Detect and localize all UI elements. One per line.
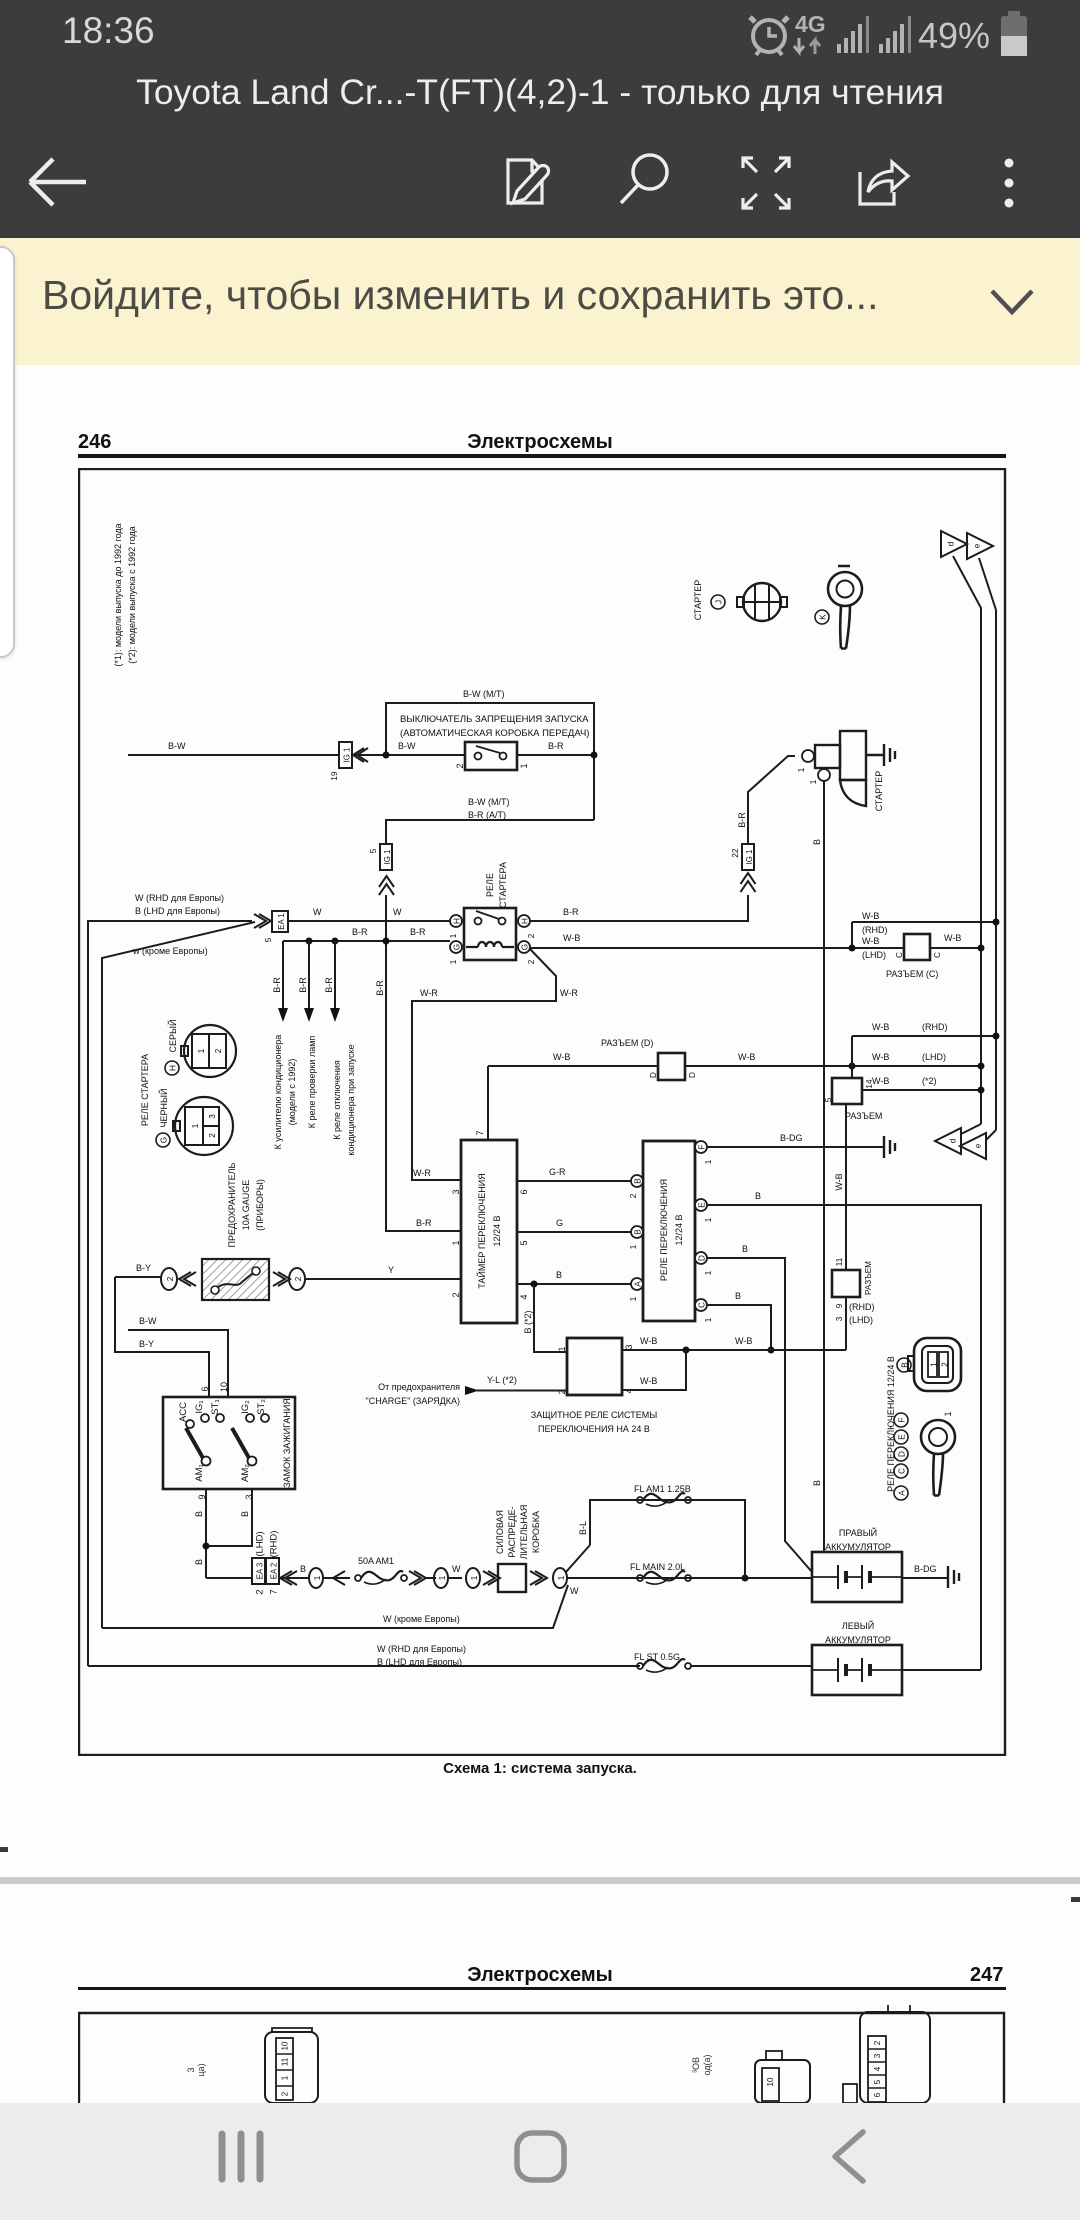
power distribution box <box>498 1564 526 1592</box>
ring terminal right view <box>921 1420 955 1496</box>
svg-text:D: D <box>688 1072 697 1078</box>
svg-text:B-R: B-R <box>563 907 579 917</box>
svg-text:7: 7 <box>269 1589 280 1594</box>
label К усилителю кондиционера <box>273 1035 297 1150</box>
svg-text:Y: Y <box>388 1265 394 1275</box>
svg-text:W-B: W-B <box>640 1336 657 1346</box>
ground symbol mid <box>884 1136 895 1158</box>
connector IG1 pin 5 <box>369 844 392 870</box>
connector EA2 RHD <box>266 1531 280 1595</box>
connector РАЗЪЕМ 11 / 3 9 <box>832 1257 873 1321</box>
svg-text:G: G <box>453 944 462 950</box>
svg-text:РАЗЪЕМ (С): РАЗЪЕМ (С) <box>886 969 938 979</box>
svg-text:A: A <box>634 1281 643 1287</box>
svg-text:2: 2 <box>208 1133 217 1138</box>
wire W-B from relay G to connector C <box>530 947 904 949</box>
svg-text:W (RHD для Европы): W (RHD для Европы) <box>135 893 224 903</box>
svg-text:кондиционера при запуске: кондиционера при запуске <box>346 1044 356 1155</box>
oval terminal 1a <box>309 1568 323 1588</box>
svg-text:АККУМУЛЯТОР: АККУМУЛЯТОР <box>825 1635 891 1645</box>
svg-text:W-B: W-B <box>872 1052 889 1062</box>
triangle e top <box>967 533 993 559</box>
svg-text:B-DG: B-DG <box>780 1133 803 1143</box>
svg-text:КОРОБКА: КОРОБКА <box>531 1511 541 1553</box>
svg-text:B-R: B-R <box>324 977 334 993</box>
svg-text:(RHD): (RHD) <box>849 1302 875 1312</box>
wire W-B star2 row <box>862 1089 981 1091</box>
svg-text:ЛЕВЫЙ: ЛЕВЫЙ <box>842 1620 874 1631</box>
page 247 diagram frame <box>79 2013 1004 2220</box>
mid rotated note text p247 <box>691 2054 712 2075</box>
ignition right labels <box>240 1399 267 1482</box>
neutral start switch box <box>465 742 517 770</box>
svg-text:6: 6 <box>873 2092 882 2097</box>
wire to oval 1b <box>424 1577 462 1579</box>
svg-text:IG₁: IG₁ <box>194 1400 205 1413</box>
svg-text:W-B: W-B <box>738 1052 755 1062</box>
overflow menu icon <box>1005 159 1014 208</box>
wire B from starter K down to right battery <box>823 781 825 1552</box>
junction dot D wire at 852 <box>849 1063 856 1070</box>
svg-text:e: e <box>974 1143 983 1148</box>
svg-text:1: 1 <box>313 1575 322 1580</box>
wire B-W top left <box>128 754 594 756</box>
app title <box>0 72 1080 113</box>
label W RHD / B LHD top <box>135 893 224 916</box>
svg-text:2: 2 <box>294 1276 303 1281</box>
wire drop to lamp check relay <box>304 941 314 1022</box>
terminal H right <box>518 915 536 938</box>
svg-text:(LHD): (LHD) <box>862 950 886 960</box>
wire B-DG to ground <box>707 1146 884 1148</box>
svg-text:B: B <box>755 1191 761 1201</box>
terminal A relay <box>629 1278 643 1301</box>
arrow chevrons after power box <box>530 1571 547 1585</box>
svg-text:W-R: W-R <box>413 1168 431 1178</box>
wire to oval 1 <box>279 1577 350 1579</box>
svg-text:"CHARGE" (ЗАРЯДКА): "CHARGE" (ЗАРЯДКА) <box>366 1396 460 1406</box>
wire w кроме Европы diagonal and vertical <box>102 922 255 1628</box>
svg-text:5: 5 <box>264 937 273 942</box>
wire drop to AC cutoff relay <box>330 941 340 1022</box>
svg-text:G-R: G-R <box>549 1167 566 1177</box>
svg-text:50A AM1: 50A AM1 <box>358 1556 394 1566</box>
starter relay box <box>464 908 516 960</box>
svg-text:(RHD): (RHD) <box>922 1022 948 1032</box>
svg-text:1: 1 <box>943 1411 953 1416</box>
svg-text:10: 10 <box>281 2041 290 2050</box>
banner chevron <box>985 285 1040 325</box>
wire G timer to relay <box>517 1231 631 1233</box>
terminal C relay <box>695 1299 713 1322</box>
connector EA1 <box>264 911 288 942</box>
wire W to FL MAIN <box>567 1577 812 1579</box>
svg-text:C: C <box>895 952 904 958</box>
svg-text:1: 1 <box>438 1575 447 1580</box>
wire W-B pin 4 loop <box>622 1350 686 1390</box>
wire from triangle e to far right vertical <box>979 558 996 1130</box>
svg-text:(RHD): (RHD) <box>862 925 888 935</box>
svg-text:4: 4 <box>873 2066 882 2071</box>
svg-text:B-W: B-W <box>139 1316 157 1326</box>
svg-text:од(а): од(а) <box>702 2054 712 2075</box>
svg-text:АККУМУЛЯТОР: АККУМУЛЯТОР <box>825 1542 891 1552</box>
svg-text:СИЛОВАЯ: СИЛОВАЯ <box>495 1510 505 1554</box>
svg-text:G: G <box>521 944 530 950</box>
tiny rotated note text p247 <box>186 2063 206 2076</box>
svg-text:B: B <box>742 1244 748 1254</box>
triangle d top <box>941 531 967 557</box>
svg-text:3: 3 <box>624 1344 634 1349</box>
timer box ТАЙМЕР ПЕРЕКЛЮЧЕНИЯ <box>461 1140 517 1323</box>
connector IG1 pin 19 <box>330 742 352 781</box>
alarm clock icon <box>750 17 788 55</box>
search icon <box>621 155 667 203</box>
junction dot pin4 riser <box>683 1347 690 1354</box>
svg-text:W: W <box>452 1564 461 1574</box>
ignition left bank contacts <box>186 1414 224 1466</box>
svg-text:1: 1 <box>451 1240 461 1245</box>
junction dot branch to protection relay <box>531 1281 538 1288</box>
svg-text:19: 19 <box>330 771 339 781</box>
terminal D relay <box>695 1252 713 1275</box>
svg-text:1: 1 <box>281 2075 290 2080</box>
svg-text:2: 2 <box>455 763 465 768</box>
terminal J circle <box>711 595 725 609</box>
labels W RHD B LHD bottom <box>377 1644 466 1667</box>
junction dot on far vertical <box>993 919 1000 926</box>
svg-text:3: 3 <box>873 2053 882 2058</box>
terminal G left <box>449 941 462 964</box>
protection relay pin labels <box>557 1344 634 1394</box>
svg-text:ACC: ACC <box>178 1402 189 1422</box>
svg-text:1: 1 <box>191 1123 200 1128</box>
svg-text:D: D <box>698 1255 707 1261</box>
svg-text:B-R: B-R <box>298 977 308 993</box>
svg-text:W-B: W-B <box>862 936 879 946</box>
right connector p247 <box>860 2003 930 2103</box>
wire B to EA connector <box>206 1577 252 1579</box>
svg-text:10A GAUGE: 10A GAUGE <box>241 1180 251 1231</box>
arrow chevrons fuse right <box>273 1272 290 1286</box>
arrow chevrons up into IG1 22 <box>741 873 756 892</box>
small box left of right connector <box>843 2084 857 2103</box>
wire B-R vertical from IG1 5 down to timer pin1 <box>386 895 461 1231</box>
svg-text:В (LHD для Европы): В (LHD для Европы) <box>135 906 220 916</box>
svg-text:2: 2 <box>166 1276 175 1281</box>
svg-text:РАЗЪЕМ (D): РАЗЪЕМ (D) <box>601 1038 653 1048</box>
svg-text:2: 2 <box>527 959 536 964</box>
protection relay box ЗАЩИТНОЕ РЕЛЕ <box>567 1338 622 1395</box>
fusible link FL ST <box>637 1659 691 1672</box>
svg-text:1: 1 <box>704 1217 713 1222</box>
svg-text:ST₂: ST₂ <box>256 1399 267 1415</box>
svg-text:РЕЛЕ ПЕРЕКЛЮЧЕНИЯ: РЕЛЕ ПЕРЕКЛЮЧЕНИЯ <box>659 1179 669 1281</box>
share icon <box>860 162 908 204</box>
svg-text:B-R: B-R <box>416 1218 432 1228</box>
svg-text:G: G <box>556 1218 563 1228</box>
svg-text:2: 2 <box>527 933 536 938</box>
svg-text:ТАЙМЕР ПЕРЕКЛЮЧЕНИЯ: ТАЙМЕР ПЕРЕКЛЮЧЕНИЯ <box>476 1173 487 1289</box>
svg-text:10: 10 <box>766 2077 775 2086</box>
wire B-W MT bypass top <box>386 703 594 820</box>
wire triangle d bottom link <box>961 1124 981 1134</box>
battery icon <box>1001 11 1027 56</box>
clock text <box>62 10 155 52</box>
svg-text:5: 5 <box>873 2079 882 2084</box>
svg-text:РЕЛЕ: РЕЛЕ <box>485 873 495 897</box>
left connector p247 <box>265 2028 318 2103</box>
arrow into protection relay pin 2 <box>465 1386 479 1395</box>
arrow chevrons after EA <box>280 1571 297 1585</box>
terminal G right <box>518 941 536 964</box>
wire B-DG battery to ground <box>902 1577 948 1579</box>
svg-text:1: 1 <box>470 1575 479 1580</box>
svg-text:(LHD): (LHD) <box>255 1531 266 1556</box>
mid connector p247 <box>755 2051 810 2103</box>
label B-W (M/T) / B-R (A/T) <box>468 797 509 820</box>
triangle e bottom <box>960 1133 986 1159</box>
svg-text:FL MAIN 2.0L: FL MAIN 2.0L <box>630 1562 685 1572</box>
svg-text:B-Y: B-Y <box>136 1263 151 1273</box>
svg-text:6: 6 <box>200 1386 210 1391</box>
wire B-R from relay to IG1 22 <box>530 895 748 921</box>
left battery cells <box>812 1658 902 1682</box>
svg-text:1: 1 <box>704 1317 713 1322</box>
svg-text:(LHD): (LHD) <box>849 1315 873 1325</box>
svg-text:ПРАВЫЙ: ПРАВЫЙ <box>839 1527 877 1538</box>
terminal G circle label <box>156 1133 170 1147</box>
fusible link FL MAIN <box>637 1571 691 1584</box>
arrow chevrons into power box <box>483 1571 500 1585</box>
svg-text:W-B: W-B <box>640 1376 657 1386</box>
svg-text:К усилителю кондиционера: К усилителю кондиционера <box>273 1035 283 1150</box>
triangle d bottom <box>935 1128 961 1154</box>
junction dot drop3 <box>332 938 339 945</box>
svg-text:2: 2 <box>873 2040 882 2045</box>
power distribution box label <box>495 1505 541 1560</box>
svg-text:1: 1 <box>809 779 818 784</box>
wire left battery to right vertical <box>902 1669 981 1671</box>
svg-text:W-B: W-B <box>872 1022 889 1032</box>
svg-text:1: 1 <box>519 763 529 768</box>
connector G black round view <box>173 1097 233 1155</box>
labels W-B RHD rows <box>862 911 888 960</box>
diagram frame <box>79 469 1005 1755</box>
svg-text:1: 1 <box>557 1346 567 1351</box>
android status + app header bar <box>0 0 1080 238</box>
wire Y fuse to timer pin 2 <box>305 1278 461 1280</box>
svg-text:ЗАЩИТНОЕ РЕЛЕ СИСТЕМЫ: ЗАЩИТНОЕ РЕЛЕ СИСТЕМЫ <box>531 1410 657 1420</box>
svg-text:B-R: B-R <box>375 980 385 996</box>
fuse box hatched <box>202 1259 269 1300</box>
wire B-R branch line <box>283 940 450 942</box>
page break artifacts <box>0 1847 8 1852</box>
svg-text:AM₂: AM₂ <box>240 1464 251 1482</box>
wire W-B RHD mid row <box>852 1035 996 1037</box>
terminal letters column F E D C A <box>894 1413 908 1500</box>
arrow chevron before link <box>333 1571 345 1585</box>
wire W-B from razem down <box>845 1297 847 1350</box>
svg-text:СЕРЫЙ: СЕРЫЙ <box>167 1020 178 1053</box>
svg-text:W: W <box>570 1586 579 1596</box>
arrow chevrons up into IG1 5 <box>379 876 394 895</box>
svg-text:К реле проверки ламп: К реле проверки ламп <box>307 1036 317 1129</box>
connector H grey round view <box>181 1025 236 1077</box>
wire B star2 branch down <box>534 1284 567 1352</box>
ignition lock box ЗАМОК ЗАЖИГАНИЯ <box>163 1397 295 1489</box>
connector EA3 LHD <box>252 1531 266 1594</box>
wire B timer pin4 to relay A <box>517 1283 631 1285</box>
terminal circle K at starter <box>809 769 830 784</box>
svg-text:F: F <box>698 1144 707 1149</box>
relay box РЕЛЕ ПЕРЕКЛЮЧЕНИЯ <box>643 1141 695 1321</box>
svg-text:B: B <box>300 1564 306 1574</box>
svg-text:1: 1 <box>930 1362 939 1367</box>
svg-text:C: C <box>698 1302 707 1308</box>
svg-text:ца): ца) <box>196 2063 206 2076</box>
svg-text:B: B <box>634 1178 643 1184</box>
svg-text:EA 2: EA 2 <box>270 1563 279 1579</box>
svg-text:1: 1 <box>704 1159 713 1164</box>
ignition left labels <box>178 1399 221 1481</box>
svg-text:ПЕРЕКЛЮЧЕНИЯ НА 24 В: ПЕРЕКЛЮЧЕНИЯ НА 24 В <box>538 1424 650 1434</box>
terminal F relay <box>695 1141 713 1164</box>
svg-text:12/24 В: 12/24 В <box>492 1215 502 1246</box>
svg-text:EA 3: EA 3 <box>256 1563 265 1579</box>
wire B from AM2 down <box>206 1489 252 1546</box>
starter motor right assembly <box>815 731 866 806</box>
svg-text:W-B: W-B <box>735 1336 752 1346</box>
junction dot FL MAIN right <box>742 1575 749 1582</box>
svg-text:B-W: B-W <box>168 741 186 751</box>
junction dot D wire right <box>978 1063 985 1070</box>
right battery box <box>812 1552 902 1602</box>
left battery box <box>812 1645 902 1695</box>
svg-text:B-R: B-R <box>410 927 426 937</box>
wire FL AM1 branch <box>590 1500 745 1578</box>
svg-text:(LHD): (LHD) <box>922 1052 946 1062</box>
svg-text:РЕЛЕ СТАРТЕРА: РЕЛЕ СТАРТЕРА <box>140 1054 150 1126</box>
svg-text:W: W <box>313 907 322 917</box>
connector РАЗЪЕМ C <box>895 934 942 960</box>
junction dot IG1-5 vertical <box>383 938 390 945</box>
svg-text:2: 2 <box>255 1589 266 1594</box>
arrow chevrons into IG1 19 <box>353 748 368 762</box>
recents button <box>222 2134 260 2179</box>
svg-text:B: B <box>812 1480 822 1486</box>
terminal B relay pin2 <box>629 1175 643 1198</box>
wire drop to AC amplifier <box>278 941 288 1022</box>
label ПРАВЫЙ АККУМУЛЯТОР <box>825 1527 891 1552</box>
svg-text:СТАРТЕРА: СТАРТЕРА <box>498 862 508 908</box>
svg-text:3: 3 <box>835 1316 844 1321</box>
oval terminal 1b <box>434 1568 448 1588</box>
svg-text:10: 10 <box>219 1382 229 1392</box>
oval terminal 1d <box>553 1568 567 1588</box>
svg-text:B: B <box>634 1229 643 1235</box>
svg-text:3: 3 <box>451 1189 461 1194</box>
svg-text:B: B <box>556 1270 562 1280</box>
svg-text:Y-L (*2): Y-L (*2) <box>487 1375 517 1385</box>
svg-text:7: 7 <box>475 1130 485 1135</box>
svg-text:ПРЕДОХРАНИТЕЛЬ: ПРЕДОХРАНИТЕЛЬ <box>227 1162 237 1247</box>
svg-text:B: B <box>194 1559 204 1565</box>
wire W RHD bottom to FL ST <box>88 1665 640 1667</box>
relay connector housing view <box>908 1338 961 1391</box>
page 247 header <box>0 1964 1080 1987</box>
junction dot at C wire <box>849 945 856 952</box>
wire B-R up to starter J <box>748 756 795 844</box>
svg-text:AM₁: AM₁ <box>194 1464 205 1481</box>
wire B from E to right vertical down to left battery <box>707 1205 981 1670</box>
svg-text:3: 3 <box>208 1114 217 1119</box>
svg-text:1: 1 <box>197 1048 206 1053</box>
page 246 header <box>78 431 111 454</box>
svg-text:1: 1 <box>629 1296 638 1301</box>
labels RHD LHD under razem <box>849 1302 875 1325</box>
label ЗАЩИТНОЕ РЕЛЕ СИСТЕМЫ <box>531 1410 657 1434</box>
svg-text:B-W (M/T): B-W (M/T) <box>468 797 509 807</box>
wire W-B RHD upper right <box>852 921 996 923</box>
wire B-W to ignition <box>128 1330 228 1397</box>
svg-text:B-R: B-R <box>548 741 564 751</box>
svg-text:B-R: B-R <box>737 812 747 828</box>
connector IG1 pin 22 <box>731 844 754 870</box>
svg-text:EA 1: EA 1 <box>277 913 286 929</box>
wire B-Y vertical to ignition <box>115 1277 209 1397</box>
svg-text:d: d <box>947 541 956 546</box>
wire W-B from pin 3 <box>622 1349 846 1351</box>
label От предохранителя CHARGE <box>366 1382 461 1406</box>
svg-text:IG₂: IG₂ <box>240 1400 251 1414</box>
vertical link RHD-LHD <box>851 922 853 948</box>
arrow chevrons after link <box>409 1571 426 1585</box>
svg-text:W (кроме Европы): W (кроме Европы) <box>383 1614 460 1624</box>
svg-text:ЧЕРНЫЙ: ЧЕРНЫЙ <box>158 1089 169 1128</box>
wire B from AM1 down <box>205 1489 207 1578</box>
wire W-B vertical between connectors <box>845 1104 847 1270</box>
vertical wire into razem 5-14 <box>851 1036 853 1078</box>
minus mark above ring terminal <box>838 565 850 568</box>
svg-text:E: E <box>698 1202 707 1208</box>
svg-text:J: J <box>715 600 724 604</box>
svg-text:2: 2 <box>214 1048 223 1053</box>
ignition right bank contacts <box>232 1414 269 1466</box>
svg-text:5: 5 <box>824 1097 833 1102</box>
svg-text:22: 22 <box>731 848 740 858</box>
label К реле отключения кондиционера <box>332 1044 356 1155</box>
svg-text:W: W <box>393 907 402 917</box>
svg-text:W-R: W-R <box>420 988 438 998</box>
svg-text:5: 5 <box>369 848 378 853</box>
terminal E relay <box>695 1199 713 1222</box>
arrow chevrons fuse left <box>179 1272 196 1286</box>
svg-text:K: K <box>819 614 828 620</box>
svg-text:B (*2): B (*2) <box>523 1310 533 1333</box>
junction dot RHD mid right <box>993 1033 1000 1040</box>
svg-text:(RHD): (RHD) <box>269 1531 280 1558</box>
svg-text:B-R: B-R <box>272 977 282 993</box>
svg-text:E: E <box>898 1434 907 1440</box>
svg-text:W-B: W-B <box>563 933 580 943</box>
label ЛЕВЫЙ АККУМУЛЯТОР <box>825 1620 891 1645</box>
connector РАЗЪЕМ D <box>649 1053 697 1080</box>
svg-text:ЛИТЕЛЬНАЯ: ЛИТЕЛЬНАЯ <box>519 1505 529 1560</box>
fuse right oval terminal <box>289 1268 305 1290</box>
terminal H circle label <box>165 1061 179 1075</box>
svg-text:C: C <box>933 952 942 958</box>
